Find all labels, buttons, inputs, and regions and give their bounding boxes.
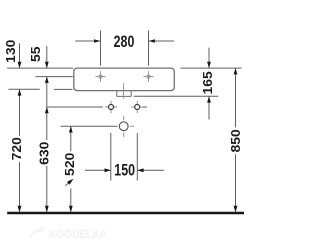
svg-text:720: 720 [9, 137, 24, 160]
svg-text:55: 55 [28, 46, 43, 62]
svg-text:280: 280 [114, 33, 135, 51]
svg-text:520: 520 [62, 153, 77, 176]
svg-text:KOODELKA: KOODELKA [49, 229, 107, 241]
svg-text:165: 165 [200, 71, 215, 94]
svg-text:630: 630 [37, 142, 52, 165]
svg-text:150: 150 [114, 162, 135, 180]
svg-text:130: 130 [3, 40, 18, 63]
svg-text:850: 850 [228, 129, 243, 152]
